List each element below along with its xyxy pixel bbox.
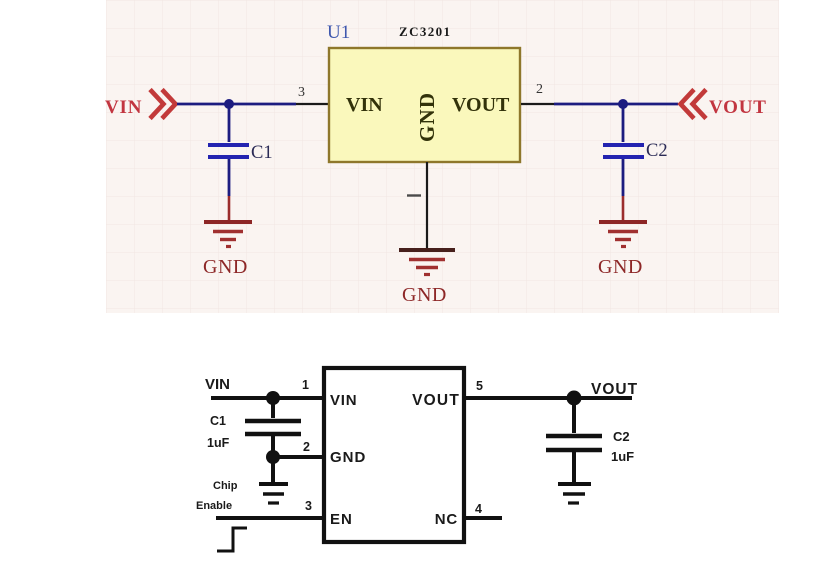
capacitor C2 — [603, 141, 668, 161]
svg-text:1uF: 1uF — [611, 449, 634, 464]
pin 2 stub of U1 — [521, 82, 554, 104]
wire pin 5 to VOUT — [466, 396, 632, 400]
ground GND left power port — [203, 222, 252, 278]
pin 4 stub NC — [466, 516, 502, 520]
svg-text:4: 4 — [475, 502, 482, 516]
node junction VIN/C1 — [266, 391, 280, 405]
wire Chip Enable to pin 3 — [216, 516, 322, 520]
capacitor C1 — [208, 143, 273, 163]
svg-text:ZC3201: ZC3201 — [399, 24, 451, 39]
svg-text:GND: GND — [203, 256, 248, 278]
pin 1 stub of U1 (GND pin, bottom) — [407, 162, 427, 250]
node junction VOUT/C2 — [567, 391, 582, 406]
capacitor C2 (bottom) — [546, 429, 634, 464]
svg-text:Enable: Enable — [196, 500, 232, 512]
wire junction to C2 — [622, 104, 625, 142]
wire junction to ground — [271, 457, 275, 482]
port VIN — [105, 90, 176, 119]
wire junction to C1 — [271, 398, 275, 418]
svg-text:1uF: 1uF — [207, 436, 230, 450]
node junction C1/GND — [266, 450, 280, 464]
svg-text:C2: C2 — [613, 429, 630, 444]
svg-text:GND: GND — [415, 92, 439, 142]
wire VIN rail (left) — [177, 103, 296, 106]
svg-text:1: 1 — [302, 378, 309, 392]
svg-text:GND: GND — [598, 256, 643, 278]
svg-text:5: 5 — [476, 379, 483, 393]
svg-text:NC: NC — [435, 511, 458, 528]
svg-text:VIN: VIN — [205, 376, 230, 393]
svg-text:VIN: VIN — [105, 97, 142, 118]
capacitor C1 (bottom) — [207, 414, 301, 450]
wire VIN to pin 1 — [211, 396, 322, 400]
svg-text:U1: U1 — [327, 22, 350, 43]
ground GND middle power port — [399, 250, 455, 306]
svg-text:C1: C1 — [210, 414, 226, 428]
wire C2 to ground — [622, 159, 625, 221]
svg-text:3: 3 — [298, 85, 305, 100]
svg-text:2: 2 — [303, 440, 310, 454]
schematic sheet background (top) — [106, 0, 779, 313]
ground (bottom right) — [558, 484, 591, 503]
svg-text:3: 3 — [305, 499, 312, 513]
svg-text:GND: GND — [402, 284, 447, 306]
svg-text:C2: C2 — [646, 141, 668, 161]
svg-text:VOUT: VOUT — [591, 381, 638, 398]
ground GND right power port — [598, 222, 647, 278]
wire C2 to ground — [572, 452, 576, 482]
op-amp U1 body ZC3201 — [327, 22, 520, 162]
rising-edge waveform symbol — [217, 528, 247, 551]
wire junction to C1 — [228, 104, 231, 142]
pin 3 stub of U1 — [296, 85, 328, 104]
wire junction to C2 — [572, 398, 576, 433]
svg-text:Chip: Chip — [213, 480, 238, 492]
svg-text:VOUT: VOUT — [412, 392, 460, 409]
svg-text:VIN: VIN — [346, 94, 383, 116]
ground (bottom left) — [259, 484, 288, 503]
wire C1 to pin 2 — [273, 436, 322, 457]
svg-text:EN: EN — [330, 511, 353, 528]
svg-text:VOUT: VOUT — [709, 97, 767, 118]
node junction right — [618, 99, 628, 109]
svg-text:GND: GND — [330, 449, 366, 466]
svg-text:C1: C1 — [251, 143, 273, 163]
transistor-outline IC body (bottom) — [324, 368, 464, 542]
node Chip Enable label — [196, 480, 238, 512]
svg-text:VOUT: VOUT — [452, 94, 510, 116]
port VOUT — [681, 90, 767, 119]
svg-text:2: 2 — [536, 82, 543, 97]
wire C1 to ground — [228, 159, 231, 221]
svg-text:VIN: VIN — [330, 392, 357, 409]
wire VOUT rail (right) — [554, 103, 678, 106]
node junction left — [224, 99, 234, 109]
